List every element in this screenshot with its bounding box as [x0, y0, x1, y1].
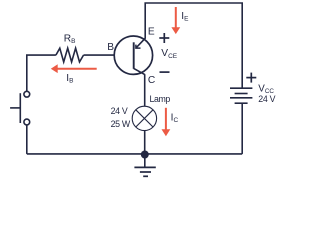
wire base (resistor to transistor) [84, 54, 115, 56]
current arrow IB [51, 64, 97, 73]
resistor RB [56, 48, 84, 62]
svg-text:IB: IB [66, 73, 73, 85]
ground [134, 154, 155, 176]
wire lamp to ground node [144, 131, 146, 155]
switch S1 (push button) [10, 91, 30, 125]
svg-text:IE: IE [181, 11, 189, 23]
battery VCC [230, 88, 252, 103]
wire right lower (battery to bottom) [241, 103, 243, 154]
wire collector to lamp [144, 74, 146, 106]
collector [134, 68, 145, 74]
label minus VCE [160, 71, 170, 73]
svg-text:25 W: 25 W [111, 119, 131, 129]
svg-text:VCE: VCE [161, 48, 177, 60]
node junction [141, 151, 149, 159]
lamp [132, 106, 156, 130]
svg-text:C: C [148, 75, 155, 86]
transistor Q1 [114, 36, 152, 75]
svg-text:Lamp: Lamp [150, 94, 171, 104]
svg-text:24 V: 24 V [111, 106, 128, 116]
svg-text:24 V: 24 V [258, 94, 275, 104]
label plus battery [246, 73, 256, 83]
wire top (emitter to Vcc) [145, 3, 242, 88]
wire left upper (switch to resistor) [27, 55, 56, 91]
svg-text:E: E [148, 27, 155, 38]
emitter with arrow (PNP) [136, 38, 145, 48]
current arrow IC [162, 108, 171, 136]
wire left lower (bottom to switch) [26, 125, 28, 154]
svg-text:RB: RB [64, 34, 76, 46]
svg-text:IC: IC [171, 113, 179, 125]
svg-text:B: B [107, 42, 114, 53]
current arrow IE [171, 7, 180, 34]
label plus VCE [159, 33, 169, 43]
wire bottom [27, 153, 242, 155]
